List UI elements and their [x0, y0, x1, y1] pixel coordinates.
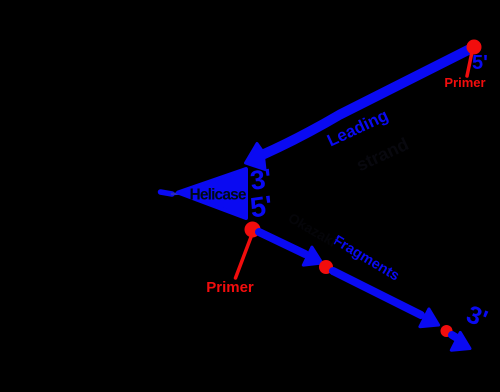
svg-text:5': 5' [472, 52, 488, 74]
okazaki fragment 1 shaft [259, 232, 305, 254]
helicase left dash [161, 192, 173, 194]
svg-text:Primer: Primer [206, 279, 254, 296]
okazaki fragment 2 shaft [333, 271, 421, 315]
svg-text:5': 5' [248, 190, 274, 224]
primer pointer line top [467, 52, 472, 76]
leading strand arrowhead [246, 144, 266, 170]
primer pointer line bottom [236, 237, 252, 278]
okazaki fragment 3 shaft [452, 335, 457, 338]
helicase triangle [178, 169, 246, 218]
leading strand shaft [262, 47, 474, 155]
svg-text:Primer: Primer [444, 75, 485, 90]
okazaki fragment 3 arrowhead [451, 332, 470, 350]
svg-text:Helicase: Helicase [190, 187, 247, 204]
primer dot 1 lagging [245, 222, 261, 238]
primer dot top (5' end of leading strand) [467, 40, 482, 55]
okazaki fragment 1 arrowhead [303, 247, 322, 265]
primer dot 2 [319, 260, 333, 274]
primer dot 3 [441, 325, 453, 337]
dash-to-tip thin connector [172, 192, 182, 195]
okazaki fragment 2 arrowhead [420, 309, 439, 327]
